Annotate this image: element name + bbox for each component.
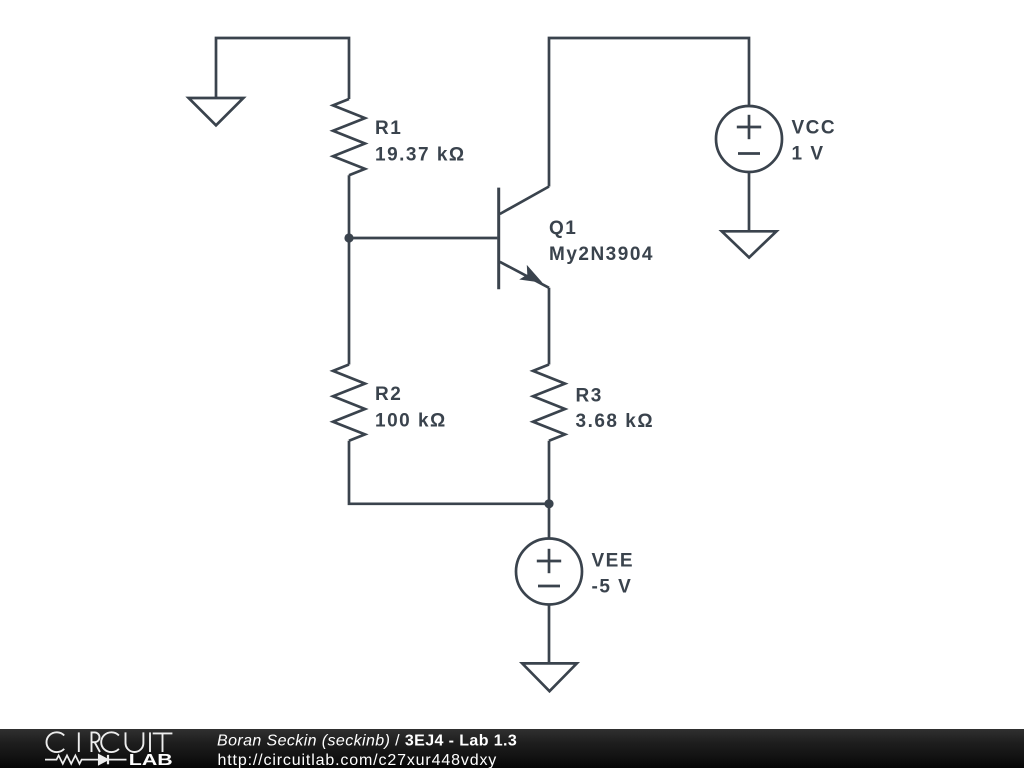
svg-text:VCC: VCC — [792, 118, 837, 139]
ground GND3 — [522, 663, 577, 691]
wire collector of Q1 to VCC — [549, 38, 749, 187]
svg-text:Boran Seckin (seckinb) / 3EJ4: Boran Seckin (seckinb) / 3EJ4 - Lab 1.3 — [217, 732, 517, 749]
resistor R1 — [333, 99, 365, 175]
svg-text:Q1: Q1 — [549, 218, 577, 239]
svg-text:R2: R2 — [375, 384, 402, 405]
CircuitLab logo resistor-diode glyph — [45, 755, 127, 764]
wire emitter of Q1 to R3 top — [548, 288, 551, 365]
svg-text:100 kΩ: 100 kΩ — [375, 410, 447, 431]
wire R2 bottom to node E — [349, 441, 549, 504]
svg-text:R1: R1 — [375, 118, 402, 139]
ground GND1 — [189, 98, 244, 125]
voltage source VEE — [516, 539, 582, 605]
wire R3 bottom to node E — [548, 441, 551, 539]
svg-text:LAB: LAB — [129, 752, 173, 768]
svg-text:http://circuitlab.com/c27xur44: http://circuitlab.com/c27xur448vdxy — [218, 752, 498, 768]
svg-text:My2N3904: My2N3904 — [549, 244, 654, 265]
wire VCC to ground GND2 — [748, 172, 751, 231]
svg-text:1 V: 1 V — [792, 144, 825, 165]
CircuitLab logo CIRCUIT letters — [46, 732, 172, 752]
resistor R3 — [533, 365, 565, 441]
wire ground GND1 to R1 top — [216, 38, 349, 99]
svg-text:3.68 kΩ: 3.68 kΩ — [576, 411, 655, 432]
svg-text:-5 V: -5 V — [592, 577, 633, 598]
svg-text:19.37 kΩ: 19.37 kΩ — [375, 145, 466, 166]
transistor Q1 — [499, 187, 549, 290]
ground GND2 — [722, 231, 777, 257]
svg-text:R3: R3 — [576, 386, 603, 407]
wire R1 bottom to R2 top through node B — [348, 175, 351, 364]
resistor R2 — [333, 365, 365, 441]
wire VEE to ground GND3 — [548, 605, 551, 664]
node B junction dot — [344, 233, 353, 242]
wire base of Q1 — [349, 237, 497, 240]
voltage source VCC — [716, 106, 782, 172]
node E junction dot — [544, 499, 553, 508]
svg-text:VEE: VEE — [592, 551, 635, 572]
